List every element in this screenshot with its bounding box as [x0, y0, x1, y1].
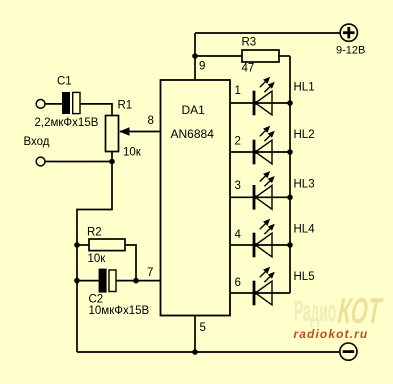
capacitor C2	[99, 269, 116, 293]
node junction R3 left	[192, 53, 198, 59]
svg-text:AN6884: AN6884	[171, 127, 215, 141]
wire R1 bottom lead	[111, 152, 113, 162]
node junction R1 bottom	[109, 159, 115, 165]
svg-text:Радио: Радио	[294, 294, 336, 327]
svg-text:DA1: DA1	[182, 103, 206, 117]
wire LED anode column	[289, 56, 291, 293]
svg-text:7: 7	[147, 267, 153, 279]
IC DA1 AN6884	[161, 80, 231, 316]
wire C1 to R1	[80, 104, 112, 116]
node junction pin5 bottom	[192, 349, 198, 355]
svg-text:2: 2	[235, 136, 241, 148]
svg-text:3: 3	[235, 180, 241, 192]
LED HL3	[230, 171, 290, 210]
wire R2 right lead	[125, 245, 136, 281]
svg-text:10к: 10к	[123, 147, 142, 159]
terminal minus	[340, 343, 357, 360]
watermark Радио	[294, 294, 336, 327]
svg-text:C1: C1	[57, 76, 72, 88]
watermark КОТ	[336, 292, 384, 332]
svg-text:8: 8	[148, 115, 154, 127]
input terminal bottom	[36, 157, 45, 166]
resistor R1 potentiometer	[106, 116, 119, 152]
svg-text:R3: R3	[242, 37, 257, 49]
wire R1 junction down-left to ground column	[77, 162, 112, 353]
node junction HL3 anode	[287, 195, 293, 201]
svg-text:R2: R2	[87, 227, 102, 239]
wire pin 7	[116, 280, 161, 282]
resistor R2	[89, 239, 125, 251]
node junction C2 right pin7	[133, 278, 139, 284]
svg-text:radiokot.ru: radiokot.ru	[294, 327, 369, 341]
wire R3 left lead	[195, 55, 242, 57]
svg-text:HL3: HL3	[294, 179, 315, 191]
svg-text:1: 1	[235, 85, 241, 97]
svg-text:4: 4	[235, 229, 242, 241]
wire R2 left lead	[77, 244, 89, 246]
wire R3 right lead	[279, 55, 290, 57]
svg-text:6: 6	[235, 277, 241, 289]
LED HL1	[230, 77, 290, 115]
wire C2 left	[77, 280, 99, 282]
svg-text:HL2: HL2	[294, 129, 315, 141]
node junction R2 left	[74, 242, 80, 248]
node junction C2 left	[74, 278, 80, 284]
svg-text:HL1: HL1	[294, 82, 315, 94]
svg-text:10к: 10к	[88, 253, 107, 265]
wire bottom negative rail	[77, 351, 340, 353]
svg-text:HL4: HL4	[294, 224, 316, 236]
terminal plus 9-12V	[340, 24, 357, 41]
svg-text:9: 9	[199, 61, 205, 73]
svg-text:HL5: HL5	[294, 271, 315, 283]
capacitor C1	[62, 92, 80, 114]
wire pin 9 vertical	[194, 33, 196, 80]
svg-text:47: 47	[242, 63, 255, 75]
input terminal top	[36, 100, 45, 109]
wire input bottom	[45, 161, 112, 163]
LED HL4	[230, 219, 290, 257]
node junction HL4 anode	[287, 242, 293, 248]
LED HL2	[230, 126, 290, 164]
svg-text:5: 5	[200, 322, 206, 334]
svg-text:C2: C2	[89, 294, 104, 306]
resistor R3	[242, 50, 279, 62]
svg-text:Вход: Вход	[24, 136, 50, 148]
wire pin 8 with wiper arrow	[119, 127, 161, 135]
svg-text:9-12В: 9-12В	[336, 45, 365, 57]
LED HL5	[230, 267, 290, 306]
svg-text:10мкФх15В: 10мкФх15В	[89, 305, 150, 317]
svg-text:КОТ: КОТ	[336, 292, 384, 332]
wire input top	[45, 103, 62, 105]
svg-text:R1: R1	[118, 100, 133, 112]
wire pin 5	[194, 316, 196, 353]
node junction HL1 anode	[287, 100, 293, 106]
svg-text:2,2мкФх15В: 2,2мкФх15В	[35, 117, 99, 129]
wire top positive rail	[195, 32, 340, 34]
node junction HL2 anode	[287, 149, 293, 155]
